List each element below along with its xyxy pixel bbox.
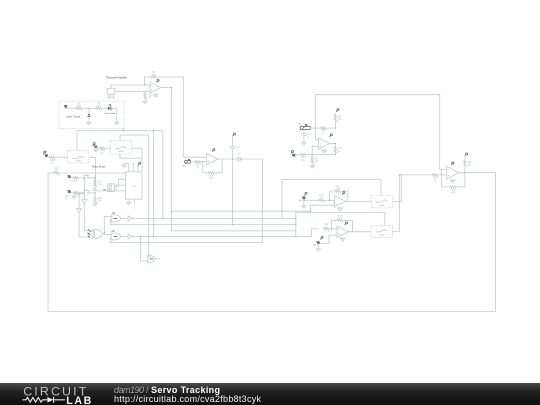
ground under D2 — [87, 123, 91, 125]
resistor R22 — [323, 223, 337, 231]
resistor R17 U2 input — [191, 161, 207, 169]
wire pot to node — [310, 127, 335, 129]
wire right rail down — [494, 173, 496, 312]
ground arrow at IC top — [122, 164, 126, 168]
motor connector M1 — [103, 184, 114, 192]
ground under R16 — [93, 204, 97, 206]
bus B3 — [110, 224, 295, 226]
resistor R7 — [321, 127, 327, 135]
wire SW3 to divider — [89, 177, 95, 179]
flag on U14 — [345, 222, 348, 225]
wire U13 output to relay K1 — [346, 200, 372, 202]
ground under OA1 — [154, 94, 158, 97]
flag on U4 — [451, 162, 454, 165]
wire XOR out to AND1 — [104, 216, 111, 218]
flag on U13 — [342, 192, 345, 195]
wire B1 up to U13 plus — [311, 205, 335, 211]
U13 feedback resistor R21 — [329, 185, 347, 201]
svg-text:LAB: LAB — [66, 395, 91, 405]
wire U4 output — [459, 172, 496, 174]
IC U3 top pins — [124, 164, 138, 172]
photocell PR1 — [107, 85, 115, 99]
ground under U13 — [338, 207, 343, 210]
ground under R6 — [310, 166, 314, 168]
resistor R24 — [432, 174, 438, 183]
diode D1 — [238, 153, 242, 161]
op-amp U2 — [207, 153, 218, 164]
flag node E — [465, 153, 468, 161]
wire reference rail — [296, 154, 336, 156]
wire W1 under laser box — [77, 131, 163, 151]
bus B1 — [171, 210, 310, 212]
ground under U14 — [340, 238, 345, 241]
source V1 — [64, 105, 67, 108]
buffer U5 down — [82, 199, 93, 230]
wire OA1 output — [162, 87, 172, 89]
wire K1 output — [393, 175, 402, 202]
wire V_a to OR gate — [148, 135, 150, 257]
wire XOR out to AND2 — [104, 234, 111, 236]
op-amp U4 — [447, 166, 459, 179]
label Laser Circuit — [66, 115, 80, 118]
resistor R26 — [464, 160, 473, 172]
bus B4 — [171, 230, 295, 232]
source V4 row A — [67, 175, 77, 183]
wire left rail — [47, 173, 49, 311]
OR gate lower input — [140, 236, 148, 261]
source V5 row B — [65, 190, 70, 200]
flag VCC at IC top — [138, 162, 141, 165]
wire SW2 top pin — [120, 135, 148, 140]
wire row2 input jog — [296, 213, 385, 237]
capacitor C1 — [302, 130, 311, 143]
bus B6 — [110, 242, 262, 244]
wire SW2 right pin — [132, 148, 142, 172]
resistor R4 — [334, 115, 342, 128]
pushbutton SW4 — [83, 189, 89, 193]
svg-text:http://circuitlab.com/cva2fbb8: http://circuitlab.com/cva2fbb8t3cyk — [114, 394, 262, 404]
switch SW2 dashed box — [111, 141, 132, 155]
flag on OA1 output net — [156, 79, 159, 82]
ground under C1 — [302, 143, 306, 145]
IC U3 motor driver — [126, 172, 143, 199]
laser diode D3 — [104, 105, 116, 115]
wire V3 to SW2 box — [96, 148, 111, 155]
source V3 for SW2 — [92, 143, 97, 152]
resistor R5 — [300, 153, 306, 161]
op-amp U13 — [334, 196, 345, 207]
buffer U6 down — [77, 209, 94, 238]
pot P2 on U2 plus input — [183, 159, 190, 167]
ground under V8 — [316, 244, 320, 251]
wire D1 to vertical — [241, 159, 262, 243]
wire OA1 minus input — [111, 84, 150, 86]
wire top to comparator minus — [315, 95, 318, 140]
resistor R16 pulldown — [94, 193, 103, 204]
wire U2 output — [218, 158, 238, 160]
U4 feedback resistor R25 — [442, 170, 465, 195]
AND gate U9 — [111, 231, 120, 240]
feedback wire with resistor R1 — [145, 71, 184, 85]
flag node C — [233, 133, 236, 146]
bus B5 — [132, 229, 318, 236]
wire SW4 to divider — [90, 192, 96, 194]
laser box bottom pin — [122, 128, 124, 130]
logo resistor and diode glyph — [23, 398, 48, 403]
wire V_b down to bus B5 — [153, 131, 155, 237]
resistor R8 — [76, 103, 82, 111]
ground under R2 — [143, 101, 147, 103]
source V7 — [299, 197, 305, 202]
resistor R9 — [96, 103, 102, 111]
wire plus input rail U4 — [399, 174, 446, 176]
resistor R13 row A — [71, 177, 84, 180]
op-amp U12 comparator — [319, 138, 330, 149]
resistor R6 divider — [311, 155, 319, 166]
terminal circle row A — [94, 188, 97, 191]
wire U12 plus input — [312, 146, 319, 154]
top wire to right op-amp — [315, 94, 439, 96]
wire OA1 plus input — [115, 90, 150, 92]
flag on U2 — [212, 149, 215, 152]
bus B2 — [132, 217, 295, 219]
wire V2 to SW1 — [48, 156, 67, 158]
source V6 reference — [291, 150, 295, 156]
wire K2 output — [393, 175, 400, 232]
wire feedback net vertical to U2 — [183, 77, 206, 157]
LED D2 indicator — [88, 108, 90, 122]
pushbutton SW3 — [83, 174, 89, 178]
wire SW3 branch down — [83, 179, 85, 200]
resistor R20 — [319, 195, 325, 203]
wire XOR output — [103, 217, 104, 235]
wire OA1 output vertical rail — [170, 88, 172, 231]
resistor R15 row B — [71, 192, 83, 195]
IC left pin 3 to motor — [114, 185, 125, 189]
flag V8 — [320, 236, 323, 239]
op-amp OA1 — [150, 82, 161, 93]
U14 feedback resistor R23 — [332, 215, 353, 232]
IC bottom pins — [129, 199, 135, 204]
wire SW2 bottom pin — [120, 154, 142, 158]
label Photocell Amplifier — [106, 76, 127, 80]
ground under IC — [127, 202, 131, 204]
IC left pin 4 rail — [96, 190, 126, 192]
wire V_c down to bus B2 — [162, 131, 164, 219]
footer bar — [0, 383, 540, 405]
laser circuit dashed box — [59, 101, 124, 128]
ground right of laser — [115, 123, 119, 125]
relay K2 dashed box — [371, 225, 393, 237]
wire V8 to U14 plus — [320, 235, 337, 243]
buffer U10 — [121, 234, 133, 239]
relay K1 dashed box — [371, 195, 393, 208]
source V2 for SW1 — [43, 151, 47, 157]
resistor R11 — [99, 147, 105, 150]
switch SW1 dashed box — [67, 150, 89, 163]
resistor R10 — [49, 156, 55, 164]
XOR gate X1 — [87, 230, 103, 239]
ground under V7 — [302, 200, 306, 209]
resistor R2 on plus input — [144, 91, 152, 101]
flag node D — [335, 109, 339, 115]
AND gate U7 — [111, 213, 120, 222]
wire SW4 branch down — [79, 194, 84, 209]
wire K2 top pin — [384, 213, 386, 226]
ground under U12 — [322, 149, 327, 152]
wire K1 top pin — [282, 180, 381, 219]
U2 feedback resistor R18 — [203, 159, 222, 180]
wire U14 output to relay K2 — [348, 231, 371, 233]
AND2 lower input loop — [109, 238, 112, 242]
ground under V5 — [72, 194, 76, 199]
pot P1 — [298, 124, 310, 130]
IC left pin 2 to motor — [114, 179, 125, 186]
OR gate U11 — [147, 255, 159, 262]
flag on U12 — [330, 134, 333, 137]
wire SW1 output — [89, 157, 96, 185]
wire U12 output — [330, 143, 336, 145]
resistor R14 pulldown — [94, 178, 103, 189]
ground under U4 — [450, 179, 455, 182]
wire laser rail — [66, 107, 108, 109]
wire bottom loop — [48, 310, 495, 312]
flag V7 — [304, 192, 307, 195]
AND1 lower input loop — [109, 220, 112, 225]
wire top rail to U4 minus — [440, 95, 447, 170]
wire laser diode to ground — [111, 108, 117, 122]
buffer U8 — [121, 216, 133, 221]
source V8 — [313, 241, 319, 246]
resistor R19 node to ref — [334, 144, 343, 155]
capacitor C2 — [230, 146, 240, 225]
wire V7 to op-amp U13 — [304, 199, 335, 201]
label Motor Driver — [92, 166, 105, 169]
op-amp U14 — [337, 226, 348, 237]
IC left pin 1 rail — [48, 167, 125, 175]
